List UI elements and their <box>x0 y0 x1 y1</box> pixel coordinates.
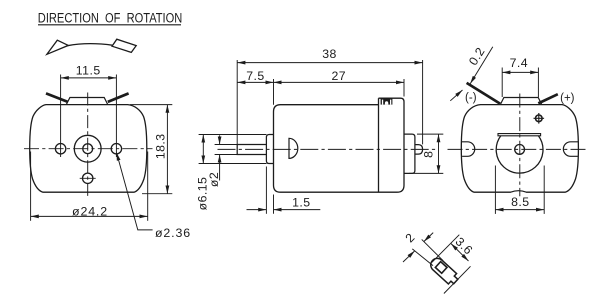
svg-text:7.5: 7.5 <box>246 69 264 83</box>
front bottom hole <box>83 173 93 183</box>
dim 7.4 right extension line <box>537 68 539 98</box>
dim 8.5 right extension line <box>543 166 545 214</box>
dim 24.2 left extension line <box>30 152 32 221</box>
rear top ridge <box>500 98 542 105</box>
dim 27 extension line right <box>403 79 405 97</box>
detail dim 2 ext line 1 <box>412 249 433 266</box>
dim 0.2 lower arrow line <box>450 90 462 101</box>
side terminal block white slits <box>382 100 383 105</box>
dim 38 left extension line <box>236 60 238 144</box>
dim 7.4 dimension line <box>502 71 538 73</box>
rear tooling mark circle <box>536 115 543 122</box>
title: DIRECTION OF ROTATION <box>38 10 183 25</box>
side horizontal centerline <box>218 148 437 150</box>
title underline <box>38 24 181 26</box>
svg-text:8: 8 <box>421 151 435 158</box>
rotation arrow left open arrowhead <box>47 40 68 54</box>
dim 2 upper arrow <box>219 135 221 144</box>
front bottom hole horizontal tick <box>80 177 96 179</box>
side shaft <box>237 145 266 155</box>
detail dim 2 ext line 2 <box>422 239 443 260</box>
rotation arrow right open parallelogram <box>112 39 136 52</box>
dim 18.3 bottom extension line <box>142 193 172 195</box>
detail dim 2 upper arrow <box>424 233 433 242</box>
svg-text:7.4: 7.4 <box>510 56 528 70</box>
dim 27 extension body edge upper <box>273 79 275 105</box>
front horizontal centerline <box>24 148 153 150</box>
front left terminal (thick) <box>46 93 68 102</box>
dim 1.5 left arrow with tail <box>247 209 267 211</box>
dim 24.2 right extension line <box>147 152 149 221</box>
front right mounting hole <box>111 144 121 154</box>
rear tooling mark cross <box>534 113 545 124</box>
dim 11.5 dimension line <box>61 77 117 79</box>
rear brush holder band <box>498 134 541 136</box>
rear left terminal (thick) <box>467 83 500 104</box>
front left mounting hole <box>55 144 65 154</box>
front top ridge <box>66 98 108 105</box>
svg-text:8.5: 8.5 <box>511 195 529 209</box>
side body outline with end cap <box>274 98 405 192</box>
dim 7.5 dimension line <box>237 81 273 83</box>
terminal hole <box>435 262 447 274</box>
side right shaft stub <box>415 145 423 155</box>
side cap separation line <box>378 98 380 192</box>
front right terminal (thick) <box>108 93 129 102</box>
dim 8.5 left extension line <box>494 166 496 214</box>
svg-text:ø24.2: ø24.2 <box>72 205 108 219</box>
side bushing <box>266 135 273 164</box>
svg-text:ø2: ø2 <box>207 172 221 187</box>
front vertical centerline <box>87 93 89 198</box>
svg-text:18.3: 18.3 <box>153 133 167 159</box>
detail dim 3.6 ext line 2 <box>444 266 471 293</box>
dim 2 bottom extension line <box>215 154 238 156</box>
dim 6.15 top extension line <box>199 134 267 136</box>
rear brush holder circle arc <box>496 136 543 173</box>
dim 7.4 left extension line <box>501 68 503 98</box>
dim 8 dimension line <box>438 134 440 173</box>
detail dim 2 lower arrow <box>403 251 415 262</box>
dim 8 top extension line <box>417 133 443 135</box>
dim 11.5 left extension line <box>60 75 62 158</box>
side terminal block (black) <box>381 98 393 104</box>
rear right side notch <box>563 142 578 157</box>
svg-text:0.2: 0.2 <box>466 45 488 68</box>
detail dim 3.6 ext line 1 <box>432 235 460 263</box>
svg-text:ø2.36: ø2.36 <box>155 226 191 240</box>
rotation direction curved arrow <box>68 44 114 46</box>
svg-text:11.5: 11.5 <box>76 64 101 78</box>
leader for hole dia 2.36 <box>117 153 153 230</box>
svg-text:1.5: 1.5 <box>292 195 310 209</box>
svg-text:27: 27 <box>332 69 347 83</box>
rear bottom vent bump <box>511 191 526 193</box>
front body outline <box>30 105 147 193</box>
front shaft circle <box>83 144 93 154</box>
side terminal block white arch <box>385 101 388 104</box>
svg-text:2: 2 <box>403 230 418 245</box>
dim 1.5 right extension line <box>273 195 275 214</box>
dim 24.2 dimension line <box>31 215 148 217</box>
dim 8 bottom extension line <box>409 172 443 174</box>
rear vertical centerline <box>519 94 521 197</box>
side vent hole (D shape) <box>289 138 298 158</box>
dim 38 dimension line <box>237 62 422 64</box>
svg-text:(+): (+) <box>560 93 575 105</box>
dim 27 dimension line <box>274 81 405 83</box>
rear left side notch <box>462 142 475 157</box>
dim 1.5 left extension line <box>265 167 267 214</box>
dim 18.3 top extension line <box>130 104 172 106</box>
dim 2 top extension line <box>215 144 238 146</box>
detail dim 3.6 dimension line <box>451 244 469 262</box>
rear right terminal (thick) <box>538 94 558 103</box>
terminal tab outline <box>428 256 460 287</box>
dim 1.5 right arrow with tail <box>274 209 321 211</box>
rear body outline (mirrored front) <box>461 105 578 193</box>
dim 8.5 dimension line <box>495 209 544 211</box>
dim 18.3 dimension line <box>166 105 168 194</box>
rear shaft circle <box>515 145 525 155</box>
dim 0.2 upper arrow line <box>470 47 493 84</box>
front center bearing boss circle <box>74 135 101 162</box>
dim 2 lower arrow with tail <box>219 155 221 181</box>
svg-text:DIRECTION OF ROTATION: DIRECTION OF ROTATION <box>38 10 183 25</box>
dim 6.15 dimension line <box>202 135 204 164</box>
dim 6.15 bottom extension line <box>199 163 267 165</box>
dim 38 right extension line <box>422 60 424 144</box>
side right boss <box>404 134 415 173</box>
dim 11.5 right extension line <box>115 75 117 158</box>
rear horizontal centerline <box>448 148 588 150</box>
svg-text:(-): (-) <box>465 92 477 104</box>
svg-text:38: 38 <box>322 47 337 61</box>
